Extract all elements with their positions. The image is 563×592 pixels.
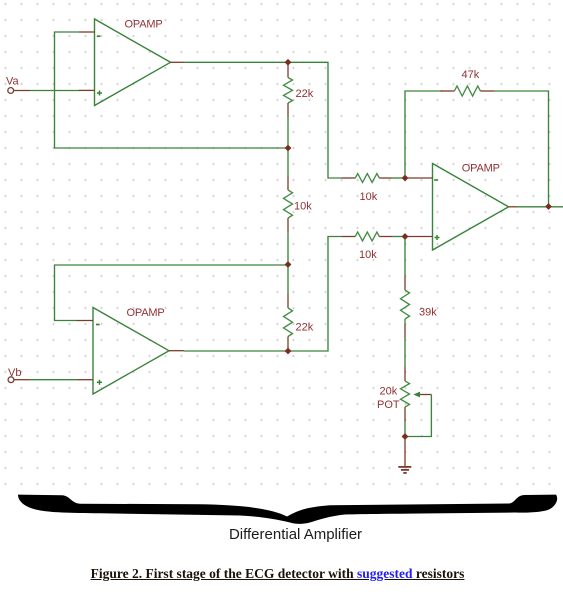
resistor R3 22k (bottom of chain) xyxy=(284,265,293,352)
svg-text:OPAMP: OPAMP xyxy=(125,19,163,31)
wire feedback node E up xyxy=(405,91,443,178)
wire Va to U1 + input xyxy=(30,90,79,92)
wiper arrow xyxy=(413,392,420,398)
node A junction xyxy=(285,59,292,66)
resistor R2 10k (middle of chain) xyxy=(284,148,293,265)
label Differential Amplifier xyxy=(14,526,563,543)
svg-text:Va: Va xyxy=(6,76,20,88)
pin U3 - xyxy=(77,320,94,322)
svg-text:Vb: Vb xyxy=(8,367,21,379)
svg-text:47k: 47k xyxy=(462,69,480,81)
svg-text:10k: 10k xyxy=(360,191,378,203)
svg-text:OPAMP: OPAMP xyxy=(127,307,165,319)
svg-text:POT: POT xyxy=(377,399,400,411)
op-amp U2 (difference stage) xyxy=(433,164,509,251)
svg-text:10k: 10k xyxy=(294,201,312,213)
node B junction xyxy=(285,145,292,152)
pin U3 + xyxy=(77,379,93,381)
terminal Va xyxy=(8,88,30,94)
svg-text:10k: 10k xyxy=(359,249,377,261)
node D junction xyxy=(285,348,292,355)
wire node C to U3 loop xyxy=(55,265,289,321)
pin U1 - xyxy=(79,31,95,33)
resistor R7 39k xyxy=(401,237,410,368)
wire U1 feedback left loop xyxy=(55,32,289,148)
wire 47k to output node H xyxy=(494,91,548,207)
potentiometer R8 20k POT xyxy=(401,367,432,437)
wire U3 output through node D up to 10k xyxy=(184,237,341,352)
wire U1 output to node A and corner xyxy=(184,62,341,178)
pin U1 output xyxy=(171,61,185,63)
brace (underbrace) xyxy=(18,495,557,524)
svg-text:22k: 22k xyxy=(296,88,314,100)
op-amp U3 (bottom buffer) xyxy=(93,308,169,395)
node G junction xyxy=(402,433,409,440)
node H junction xyxy=(545,203,552,210)
pin U3 output xyxy=(169,350,184,352)
ground xyxy=(398,437,411,473)
op-amp U1 (top buffer) xyxy=(95,19,171,106)
resistor R4 10k (to U2 inverting input) xyxy=(341,174,432,183)
wire U2 output to right edge xyxy=(517,206,563,208)
pin U2 output xyxy=(509,206,518,208)
svg-text:OPAMP: OPAMP xyxy=(462,163,500,175)
svg-text:39k: 39k xyxy=(419,307,437,319)
pin U1 + xyxy=(79,89,95,91)
terminal Vb xyxy=(8,377,30,383)
svg-text:22k: 22k xyxy=(296,322,314,334)
node F junction xyxy=(402,233,409,240)
resistor R5 10k (to U2 non-inverting input) xyxy=(341,232,432,241)
wire Vb to U3 + input xyxy=(30,379,77,381)
svg-text:20k: 20k xyxy=(380,386,398,398)
node E junction xyxy=(402,175,409,182)
node C junction xyxy=(285,261,292,268)
caption Figure 2 xyxy=(0,566,559,582)
resistor R1 22k (top of chain) xyxy=(284,62,293,148)
resistor R6 47k (feedback) xyxy=(440,86,494,96)
